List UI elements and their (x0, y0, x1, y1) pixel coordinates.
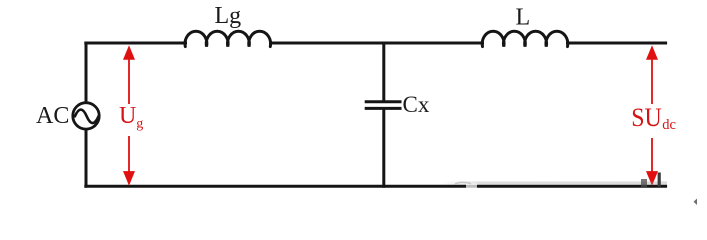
svg-text:Lg: Lg (215, 3, 242, 29)
svg-text:AC: AC (36, 103, 69, 129)
svg-text:SU: SU (631, 103, 662, 132)
svg-text:dc: dc (662, 117, 676, 133)
svg-text:U: U (119, 103, 136, 129)
svg-text:g: g (136, 117, 143, 132)
svg-text:Cx: Cx (403, 92, 430, 117)
svg-text:L: L (516, 5, 531, 31)
